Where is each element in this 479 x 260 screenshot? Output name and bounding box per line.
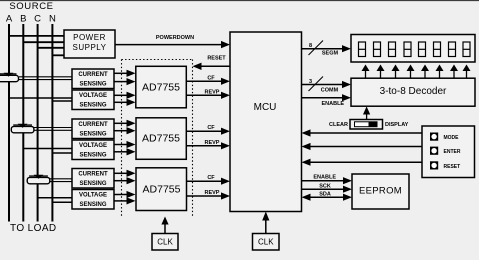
svg-text:3-to-8 Decoder: 3-to-8 Decoder <box>380 86 447 97</box>
wire SEGM bus MCU to display <box>302 48 343 50</box>
block AD7755 U3 <box>136 168 187 211</box>
wire C to power supply <box>38 47 64 49</box>
wire decoder to display arrow 3 <box>395 71 397 79</box>
wire voltage tap phase A <box>9 97 72 99</box>
display digit 5 <box>419 42 426 57</box>
svg-text:ENABLE: ENABLE <box>321 101 344 107</box>
wire ENTER button to MCU <box>310 146 422 148</box>
svg-text:AD7755: AD7755 <box>142 82 180 94</box>
button RESET <box>430 161 438 169</box>
wire SDA bidirectional MCU EEPROM <box>310 196 344 198</box>
svg-text:SENSING: SENSING <box>79 181 106 187</box>
svg-text:REVP: REVP <box>205 190 220 196</box>
wire ENABLE MCU to decoder <box>302 97 343 99</box>
bus slash COMM <box>309 77 324 92</box>
wire phase B vertical <box>22 24 24 222</box>
oscillator CLK1 for AD7755 U3 <box>152 234 178 251</box>
svg-text:EEPROM: EEPROM <box>359 186 402 197</box>
display digit 6 <box>434 42 441 57</box>
wire decoder to display arrow 6 <box>439 71 441 79</box>
display digit 8 <box>463 42 470 57</box>
wire decoder to display arrow 2 <box>380 71 382 79</box>
svg-text:SENSING: SENSING <box>79 153 106 159</box>
wire voltage tap phase C <box>38 197 72 199</box>
block MCU <box>230 32 302 212</box>
svg-text:RESET: RESET <box>444 164 461 170</box>
display digit 1 <box>359 42 366 57</box>
wire REVP U1 to MCU <box>187 94 222 96</box>
svg-text:MODE: MODE <box>444 135 460 141</box>
svg-text:POWERDOWN: POWERDOWN <box>156 35 194 41</box>
wire CF U2 to MCU <box>187 130 222 132</box>
bus slash SEGM <box>309 41 324 56</box>
wire CLK1 to AD7755 U3 <box>164 223 166 234</box>
svg-text:CF: CF <box>207 75 215 81</box>
svg-text:SUPPLY: SUPPLY <box>73 43 107 52</box>
svg-text:3: 3 <box>309 79 312 85</box>
button ENTER <box>430 147 438 155</box>
button MODE <box>430 133 438 141</box>
svg-text:N: N <box>49 14 56 25</box>
svg-text:MCU: MCU <box>254 102 277 113</box>
wire REVP U2 to MCU <box>187 145 222 147</box>
wire decoder to display arrow 1 <box>365 71 367 79</box>
wire MODE button to MCU <box>310 132 422 134</box>
svg-text:CURRENT: CURRENT <box>78 172 108 178</box>
wire decoder to display arrow 4 <box>410 71 412 79</box>
svg-text:CF: CF <box>207 125 215 131</box>
wire decoder to display arrow 7 <box>453 71 455 79</box>
wire voltage tap N group1 <box>52 100 72 102</box>
svg-text:VOLTAGE: VOLTAGE <box>79 143 107 149</box>
transformer CT phase B <box>11 126 34 132</box>
wire voltage tap N group2 <box>52 152 72 154</box>
wire CT A secondary pair <box>19 76 72 78</box>
wire N to power supply <box>52 54 64 56</box>
block CURRENT SENSING 2 <box>72 119 114 139</box>
block POWER SUPPLY <box>64 30 115 58</box>
svg-text:8: 8 <box>309 43 312 49</box>
svg-text:SENSING: SENSING <box>79 202 106 208</box>
wire RESET button to MCU <box>310 161 422 163</box>
wire voltage sensing 2 to AD7755 U2 arrows <box>114 144 128 146</box>
svg-text:SOURCE: SOURCE <box>9 1 53 12</box>
svg-text:REVP: REVP <box>205 89 220 95</box>
display digit 2 <box>374 42 381 57</box>
svg-text:ENABLE: ENABLE <box>313 175 336 181</box>
wire POWERDOWN power supply to MCU <box>115 44 222 46</box>
wire REVP U3 to MCU <box>187 195 222 197</box>
svg-text:VOLTAGE: VOLTAGE <box>79 193 107 199</box>
wire voltage sensing 3 to AD7755 U3 arrows <box>114 194 128 196</box>
wire decoder to display arrow 5 <box>424 71 426 79</box>
block AD7755 U2 <box>136 118 186 160</box>
svg-text:CLK: CLK <box>157 238 173 247</box>
svg-text:B: B <box>20 14 26 25</box>
switch CLEAR DISPLAY <box>366 113 368 120</box>
wire CLK2 to MCU <box>265 219 267 234</box>
wire current sensing 1 to AD7755 U1 arrows <box>114 72 128 74</box>
wire B to power supply <box>23 41 64 43</box>
transformer CT phase A <box>0 75 19 81</box>
svg-text:SCK: SCK <box>319 184 331 190</box>
display digit 4 <box>404 42 411 57</box>
wire decoder to display arrow 8 <box>466 71 468 79</box>
svg-text:SENSING: SENSING <box>79 103 106 109</box>
svg-text:CF: CF <box>207 175 215 181</box>
wire ENABLE MCU to EEPROM <box>302 180 344 182</box>
svg-text:POWER: POWER <box>73 33 106 42</box>
oscillator CLK2 for MCU <box>253 234 280 251</box>
svg-text:CURRENT: CURRENT <box>78 72 108 78</box>
block CURRENT SENSING 1 <box>72 69 114 89</box>
wire current sensing 3 to AD7755 U3 arrows <box>114 172 128 174</box>
wire SCK MCU to EEPROM <box>302 188 344 190</box>
wire CF U1 to MCU <box>187 80 222 82</box>
svg-text:SDA: SDA <box>319 192 331 198</box>
svg-text:SENSING: SENSING <box>79 132 106 138</box>
svg-text:AD7755: AD7755 <box>143 184 181 196</box>
display digit 7 <box>449 42 456 57</box>
svg-text:VOLTAGE: VOLTAGE <box>79 93 107 99</box>
block AD7755 U1 <box>136 66 187 108</box>
svg-text:COMM: COMM <box>321 88 339 94</box>
wire A to power supply <box>9 35 64 37</box>
svg-text:SEGM: SEGM <box>322 51 339 57</box>
svg-text:REVP: REVP <box>205 140 220 146</box>
wire CT B secondary pair <box>34 127 72 129</box>
wire CF U3 to MCU <box>187 180 222 182</box>
wire voltage tap phase B <box>23 148 72 150</box>
display digit 3 <box>389 42 396 57</box>
block CURRENT SENSING 3 <box>72 169 114 189</box>
wire phase A vertical <box>8 24 10 222</box>
svg-text:ENTER: ENTER <box>444 149 461 155</box>
wire neutral N vertical <box>51 24 53 222</box>
svg-text:A: A <box>6 14 13 25</box>
svg-text:SENSING: SENSING <box>79 82 106 88</box>
wire RESET MCU to AD7755 group <box>201 65 230 67</box>
block 8-digit display <box>351 35 475 63</box>
wire voltage tap N group3 <box>52 201 72 203</box>
svg-text:AD7755: AD7755 <box>142 133 180 145</box>
svg-text:CLK: CLK <box>258 238 274 247</box>
svg-text:CLEAR: CLEAR <box>329 122 348 128</box>
wire voltage sensing 1 to AD7755 U1 arrows <box>114 94 128 96</box>
block VOLTAGE SENSING 3 <box>72 190 114 210</box>
wire CT C secondary pair <box>50 178 73 180</box>
svg-text:CURRENT: CURRENT <box>78 122 108 128</box>
block 3-to-8 Decoder <box>351 78 475 106</box>
svg-text:RESET: RESET <box>207 56 226 62</box>
wire COMM bus MCU to decoder <box>302 84 343 86</box>
svg-text:DISPLAY: DISPLAY <box>385 122 409 128</box>
block pushbuttons <box>422 126 475 178</box>
transformer CT phase C <box>27 177 50 183</box>
wire phase C vertical <box>37 24 39 222</box>
dashed boundary box around AD7755s <box>122 59 193 61</box>
svg-text:C: C <box>34 14 41 25</box>
block VOLTAGE SENSING 2 <box>72 140 114 160</box>
wire current sensing 2 to AD7755 U2 arrows <box>114 122 128 124</box>
block EEPROM <box>352 174 409 209</box>
svg-text:TO LOAD: TO LOAD <box>10 223 57 234</box>
block VOLTAGE SENSING 1 <box>72 90 114 110</box>
